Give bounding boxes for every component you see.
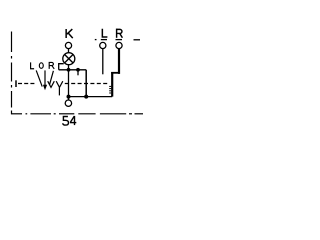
- switch position label R: [49, 62, 54, 69]
- connector R wire to right side: [111, 72, 119, 74]
- label L: [102, 29, 107, 37]
- label K: [66, 29, 73, 38]
- wire lamp to node A: [68, 65, 70, 71]
- switch position mark right diagonal: [50, 71, 54, 85]
- switch position label L: [31, 62, 34, 68]
- wire corner vertical: [85, 70, 87, 97]
- contact stub node B: [76, 68, 80, 72]
- label R: [117, 29, 123, 38]
- junction dot node C: [67, 95, 71, 99]
- wire from R (thick): [118, 49, 120, 74]
- wire from L: [102, 49, 104, 75]
- wire K to lamp: [68, 49, 70, 53]
- chain boundary bottom horizontal: [11, 113, 143, 115]
- mechanical link tick: [15, 80, 17, 87]
- terminal K: [65, 42, 71, 48]
- stub below V2: [58, 87, 60, 95]
- terminal R: [116, 42, 122, 48]
- terminal 54: [65, 100, 71, 106]
- detent comb ticks: [109, 86, 111, 93]
- mechanical link dashed line (right part): [65, 83, 109, 85]
- wire top line: [59, 69, 86, 71]
- contact notch V1: [48, 81, 55, 87]
- label 54 digit 5: [63, 117, 69, 126]
- junction dot node D: [84, 95, 88, 99]
- contact notch V2: [56, 81, 63, 87]
- wire bottom line: [69, 96, 113, 98]
- switch position mark left diagonal: [36, 70, 42, 86]
- contact hook above V2: [59, 64, 64, 70]
- chain boundary top-right horizontal: [95, 39, 140, 41]
- chain boundary left vertical: [11, 32, 13, 115]
- terminal L: [100, 42, 106, 48]
- box right side vertical (thick): [111, 72, 113, 97]
- node A junction dot: [67, 68, 71, 72]
- stub down from node B: [77, 70, 79, 76]
- indicator lamp: [63, 53, 75, 65]
- label 54 digit 4: [70, 116, 76, 125]
- wire lamp lead lower: [68, 70, 70, 100]
- mechanical link dashed line (left part): [18, 83, 36, 85]
- switch position label 0: [39, 63, 43, 69]
- switch actuator arrow: [43, 70, 47, 90]
